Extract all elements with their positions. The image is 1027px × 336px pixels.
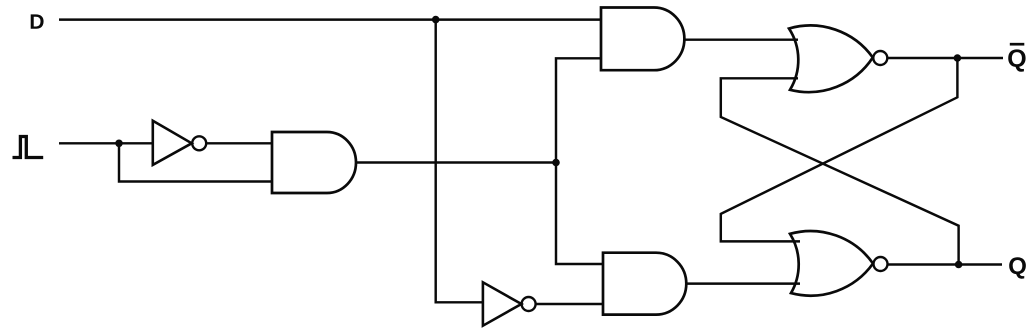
input pulse (clock) symbol [13,137,44,158]
AND gate U2 [272,132,356,193]
wire clock input [59,142,153,144]
wire U1 output to AND U2 [206,142,272,144]
NOR gate U7 [790,231,888,296]
wire U2 output [356,161,556,163]
node J1 on D line [432,16,440,24]
inverter U1 [153,121,206,165]
inverter U3 [483,282,536,325]
wire cross-couple Q to U6 input [721,78,959,264]
wire D input line [59,18,601,20]
node Qbar [954,54,962,62]
node Q [955,261,963,269]
wire U5 output to NOR U7 [686,282,800,284]
wire U3 output to AND U5 [536,303,603,305]
node J3 on pulse line [552,159,560,167]
output label Qbar [1008,44,1025,72]
wire pulse branch down to AND U5 [556,163,603,265]
wire U6 output to Qbar [887,57,1003,59]
wire U4 output to NOR U6 [684,38,798,40]
output label Q [1009,257,1026,278]
input label D [31,14,44,28]
NOR gate U6 [789,25,887,92]
AND gate U5 [603,253,686,315]
node J2 on clock line [115,140,123,148]
AND gate U4 [601,8,684,71]
wire pulse branch up to AND U4 [556,58,601,162]
wire clock lower branch to AND U2 [119,143,272,181]
wire U7 output to Q [888,263,1003,265]
wire cross-couple Qbar to U7 input [721,58,958,241]
wire D branch vertical to inverter U3 [436,20,483,303]
